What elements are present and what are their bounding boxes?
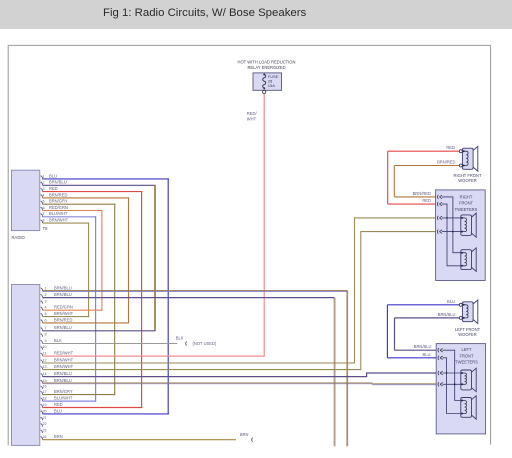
C2 pin 7 label	[45, 325, 72, 330]
svg-text:WHT: WHT	[247, 116, 257, 121]
C2 pin 2 label	[45, 292, 72, 297]
svg-text:BRN/RED: BRN/RED	[413, 191, 431, 196]
label RIGHT FRONT TWEETERS	[455, 194, 478, 212]
LT upper tweeter speaker	[461, 368, 476, 392]
fuse box	[253, 73, 282, 90]
wire C1 pin 6 RED/GRN horizontal	[42, 210, 102, 212]
svg-text:5: 5	[45, 312, 47, 316]
C2 pin 18 hook	[41, 398, 43, 401]
svg-text:15A: 15A	[268, 83, 275, 88]
C2 pin 22 hook	[41, 424, 43, 427]
wire C2 pin 7 BRN/BLU	[42, 330, 155, 332]
svg-text:11: 11	[43, 352, 47, 356]
svg-text:BRN/RED: BRN/RED	[49, 192, 67, 197]
svg-text:6: 6	[45, 318, 47, 322]
svg-text:FRONT: FRONT	[459, 201, 474, 206]
svg-text:17: 17	[42, 390, 46, 394]
C2 pin 15 label	[42, 378, 71, 383]
wire C2 pin 11 RED/WHT	[42, 355, 264, 357]
svg-text:BRN/BLU: BRN/BLU	[414, 344, 432, 349]
wire C1 pin 8 BRN/WHT vertical	[88, 223, 90, 318]
RT entry 1 BRN/RED	[437, 195, 442, 199]
wire BRN/BLU to left front woofer	[395, 318, 460, 350]
svg-text:4: 4	[43, 193, 45, 197]
wire C1 pin 5 BRN/GRY horizontal	[42, 203, 115, 205]
svg-text:8: 8	[45, 332, 47, 336]
svg-text:BRN/WHT: BRN/WHT	[54, 357, 74, 362]
wire C1 pin 7 BLU/WHT vertical	[95, 216, 97, 401]
wire C1 pin 8 BRN/WHT horizontal	[42, 222, 89, 224]
wire C1 pin 5 BRN/GRY vertical	[114, 204, 116, 395]
svg-text:WOOFER: WOOFER	[458, 178, 476, 183]
label LEFT FRONT WOOFER	[455, 327, 481, 337]
svg-text:BRN/RED: BRN/RED	[437, 160, 455, 165]
fuse output connector ring	[263, 90, 266, 93]
LT entry 1 BRN/BLU	[438, 348, 443, 352]
RT upper tweeter speaker	[461, 213, 476, 237]
right front woofer speaker	[459, 146, 478, 171]
svg-text:BRN/GRY: BRN/GRY	[54, 389, 73, 394]
C2 pin 16 hook	[41, 386, 43, 389]
svg-text:BRN/GRY: BRN/GRY	[49, 199, 68, 204]
label RED at woofer	[446, 145, 455, 150]
C1 pin 5 hook	[41, 201, 43, 204]
svg-text:RED: RED	[49, 186, 58, 191]
LT junction node lower	[454, 383, 456, 385]
svg-text:23: 23	[42, 429, 46, 433]
C2 pin 10 label	[42, 345, 46, 349]
svg-text:7: 7	[45, 326, 47, 330]
wire C2 pin 9 BLK	[42, 343, 177, 345]
svg-text:RED: RED	[422, 198, 431, 203]
svg-text:BLU/WHT: BLU/WHT	[49, 211, 68, 216]
C2 pin 12 label	[42, 357, 73, 362]
LT internal wire entry4 to upper tweeter	[443, 383, 462, 385]
label BRN/RED at tweeter box	[413, 191, 431, 196]
wire C1 pin 6 RED/GRN vertical	[101, 210, 103, 311]
C1 pin 2 label BRN/BLU	[43, 180, 67, 185]
svg-text:3: 3	[45, 299, 47, 303]
svg-text:BRN/BLU: BRN/BLU	[54, 371, 72, 376]
RT internal wire entry1 to lower tweeter	[442, 197, 462, 253]
svg-text:BLU: BLU	[447, 299, 455, 304]
svg-text:BLU: BLU	[423, 352, 431, 357]
C1 pin 2 hook	[41, 182, 43, 185]
wire C1 pin 4 BRN/RED horizontal	[42, 197, 129, 199]
RT entry 4 BRN/WHT	[437, 230, 442, 234]
C2 pin 23 label	[42, 429, 46, 433]
C2 pin 12 hook	[41, 360, 43, 363]
svg-text:RED: RED	[446, 145, 455, 150]
LT internal wire entry2 to lower tweeter	[443, 358, 462, 414]
wire C2 pin 5 BRN/WHT	[42, 316, 89, 318]
wire C2 pin 17 BRN/GRY	[42, 394, 115, 396]
svg-text:6: 6	[43, 206, 45, 210]
C2 pin 4 label	[45, 305, 73, 310]
svg-text:BRN/RED: BRN/RED	[54, 317, 72, 322]
wire C2 pin 1 BRN/BLU horizontal	[42, 290, 347, 293]
svg-text:TWEETERS: TWEETERS	[455, 360, 478, 365]
C2 pin 3 label	[45, 299, 47, 303]
C2 pin 17 label	[42, 389, 72, 394]
svg-text:BRN/BLU: BRN/BLU	[54, 285, 72, 290]
svg-text:RED/GRN: RED/GRN	[49, 205, 68, 210]
C2 pin 19 hook	[41, 404, 43, 407]
svg-text:RADIO: RADIO	[12, 235, 26, 240]
wire C1 pin 3 RED horizontal	[42, 191, 142, 193]
C1 pin 7 hook	[41, 214, 43, 217]
fuse labels FUSE 28 15A	[268, 74, 279, 88]
svg-text:3: 3	[43, 187, 45, 191]
label BRN/RED at woofer	[437, 160, 455, 165]
svg-text:BRN/BLU: BRN/BLU	[54, 325, 72, 330]
svg-text:8: 8	[43, 219, 45, 223]
svg-text:14: 14	[42, 372, 46, 376]
C2 pin 21 label	[42, 416, 46, 420]
C2 pin 2 hook	[41, 295, 43, 298]
right front tweeters box	[436, 190, 486, 281]
svg-text:2: 2	[43, 181, 45, 185]
svg-text:BRN/WHT: BRN/WHT	[49, 218, 69, 223]
C2 pin 24 label	[42, 434, 62, 439]
C1 pin 5 label BRN/GRY	[43, 199, 68, 204]
C2 pin 14 label	[42, 371, 71, 376]
C2 pin 6 hook	[41, 320, 43, 323]
C2 pin 24 hook	[41, 437, 43, 440]
C1 pin 6 label RED/GRN	[43, 205, 68, 210]
C1 pin 4 hook	[41, 195, 43, 198]
left front woofer speaker	[459, 300, 478, 324]
C2 pin 21 hook	[41, 417, 43, 420]
C2 pin 23 hook	[41, 430, 43, 433]
RT junction node upper	[446, 217, 448, 219]
label RIGHT FRONT WOOFER	[454, 173, 482, 183]
svg-text:24: 24	[42, 435, 46, 439]
svg-text:7: 7	[43, 212, 45, 216]
C2 pin 4 hook	[41, 307, 43, 310]
C1 pin 3 label RED	[43, 186, 58, 191]
svg-text:BRN: BRN	[54, 434, 63, 439]
svg-text:12: 12	[42, 358, 46, 362]
svg-text:5: 5	[43, 200, 45, 204]
C2 pin 9 hook	[41, 340, 43, 343]
RT lower tweeter speaker	[461, 248, 476, 272]
wire C1 pin 1 BLU vertical	[167, 178, 169, 414]
C1 pin 1 hook	[41, 176, 43, 179]
svg-text:1: 1	[45, 286, 47, 290]
C2 pin 13 label	[42, 364, 73, 369]
C2 pin 11 label	[43, 351, 74, 356]
svg-text:T8: T8	[43, 226, 49, 231]
wire C2 pin 6 BRN/RED	[42, 322, 129, 324]
label T8	[43, 226, 49, 231]
svg-text:TWEETERS: TWEETERS	[455, 207, 478, 212]
RT entry 2 RED	[437, 202, 442, 206]
svg-text:BRN/WHT: BRN/WHT	[54, 311, 74, 316]
wire C1 pin 1 BLU horizontal	[42, 178, 168, 180]
C2 pin 11 hook	[41, 353, 43, 356]
RT internal wire entry2 to lower tweeter	[442, 204, 462, 266]
label HOT WITH LOAD REDUCTION RELAY ENERGIZED	[238, 60, 296, 70]
C2 pin 14 hook	[41, 374, 43, 377]
C2 pin 17 hook	[41, 392, 43, 395]
wire C2 pin 1 BRN/BLU vertical	[346, 291, 349, 447]
C2 pin 24 end hook	[252, 438, 253, 442]
wire C2 pin 12 BRN/WHT run	[42, 217, 436, 363]
wire BLU to left front woofer	[387, 305, 459, 358]
svg-text:RIGHT: RIGHT	[460, 194, 473, 199]
wire C2 pin 14 BRN/BLU run	[42, 373, 436, 377]
svg-text:1: 1	[43, 174, 45, 178]
label RED/WHT on fuse wire	[247, 111, 258, 121]
C2 pin 7 hook	[41, 328, 43, 331]
LT entry 2 BLU	[438, 356, 443, 360]
wire C2 pin 19 RED	[42, 407, 142, 409]
label (NOT USED)	[193, 341, 217, 346]
radio connector T8 box	[12, 170, 40, 230]
svg-text:BLK: BLK	[176, 336, 184, 341]
wire C2 pin 2 BRN/BLU horizontal	[42, 297, 334, 299]
wire RED to right front woofer	[388, 151, 460, 204]
RT entry 3 BRN/WHT	[437, 216, 442, 220]
C2 pin 5 label	[45, 311, 74, 316]
svg-text:BLU: BLU	[54, 408, 62, 413]
svg-text:BLU: BLU	[49, 173, 57, 178]
wire C2 pin 2 BRN/BLU vertical	[333, 298, 336, 447]
wire C1 pin 4 BRN/RED vertical	[128, 197, 130, 323]
svg-text:4: 4	[45, 306, 47, 310]
C2 pin 5 hook	[41, 314, 43, 317]
title bar	[0, 0, 512, 29]
svg-text:20: 20	[42, 409, 46, 413]
C2 pin 18 label	[42, 396, 72, 401]
svg-text:RED/GRN: RED/GRN	[54, 305, 73, 310]
C2 pin 13 hook	[41, 367, 43, 370]
svg-text:RED: RED	[54, 402, 63, 407]
C1 pin 8 label BRN/WHT	[43, 218, 69, 223]
label BLU at tweeter box	[423, 352, 431, 357]
svg-text:10: 10	[42, 345, 46, 349]
svg-text:BRN/BLU: BRN/BLU	[49, 180, 67, 185]
LT junction node upper	[446, 372, 448, 374]
svg-text:BRN/BLU: BRN/BLU	[54, 378, 72, 383]
C2 pin 20 label	[42, 408, 62, 413]
svg-text:RED/WHT: RED/WHT	[54, 351, 74, 356]
svg-text:BRN/WHT: BRN/WHT	[54, 364, 74, 369]
svg-text:15: 15	[42, 379, 46, 383]
wire C2 pin 18 BLU/WHT	[42, 400, 96, 402]
svg-text:18: 18	[42, 397, 46, 401]
C1 pin 6 hook	[41, 207, 43, 210]
C2 pin 22 label	[42, 422, 46, 426]
C2 pin 19 label	[42, 402, 62, 407]
label BLK at wire end	[176, 336, 184, 341]
svg-text:16: 16	[42, 385, 46, 389]
svg-text:FRONT: FRONT	[459, 353, 474, 358]
svg-text:22: 22	[42, 422, 46, 426]
C2 pin 1 label	[45, 285, 72, 290]
svg-text:RED/: RED/	[247, 111, 258, 116]
label BLU at woofer	[447, 299, 455, 304]
svg-text:(NOT USED): (NOT USED)	[193, 341, 217, 346]
svg-text:19: 19	[42, 403, 46, 407]
svg-text:9: 9	[45, 339, 47, 343]
wire C2 pin 15 BRN/BLU run	[42, 383, 436, 385]
wire RED/WHT fuse to C2 pin 11 (vertical)	[263, 94, 265, 356]
C2 pin 1 hook	[41, 288, 43, 291]
C2 pin 8 label	[45, 332, 47, 336]
wire C1 pin 2 BRN/BLU horizontal	[42, 184, 155, 186]
LT internal wire entry1 to lower tweeter	[443, 350, 462, 400]
RT internal wire entry4 to upper tweeter	[442, 231, 462, 233]
RT internal wire entry3 to upper tweeter	[442, 217, 462, 219]
LT lower tweeter speaker	[461, 396, 476, 419]
C1 pin 4 label BRN/RED	[43, 192, 68, 197]
label LEFT FRONT TWEETERS	[455, 347, 478, 365]
C1 pin 7 label BLU/WHT	[43, 211, 68, 216]
wire C2 pin 24 BRN	[42, 439, 236, 441]
wire C2 pin 4 RED/GRN	[42, 309, 102, 311]
C2 pin 6 label	[45, 317, 73, 322]
LT entry 4 BRN/BLU	[438, 382, 443, 386]
C2 pin 8 hook	[41, 334, 43, 337]
wire C1 pin 7 BLU/WHT horizontal	[42, 216, 96, 218]
svg-text:21: 21	[42, 416, 46, 420]
wire C1 pin 3 RED vertical	[141, 191, 143, 408]
svg-text:BLK: BLK	[54, 338, 62, 343]
left front tweeters box	[436, 344, 485, 434]
svg-text:WOOFER: WOOFER	[458, 332, 476, 337]
label BRN/BLU at woofer	[438, 312, 456, 317]
C2 pin 9 end hook	[185, 342, 188, 346]
C1 pin 8 hook	[41, 220, 43, 223]
C2 pin 9 label	[45, 338, 62, 343]
label BRN at wire end	[240, 432, 249, 437]
svg-text:BRN: BRN	[240, 432, 249, 437]
wire C2 pin 20 BLU	[42, 413, 168, 415]
label RED at tweeter box	[422, 198, 431, 203]
svg-text:BRN/BLU: BRN/BLU	[54, 292, 72, 297]
LT internal wire entry3 to upper tweeter	[443, 372, 462, 374]
C2 pin 16 label	[42, 385, 46, 389]
svg-text:2: 2	[45, 293, 47, 297]
amp connector box	[12, 285, 40, 446]
svg-text:LEFT: LEFT	[461, 347, 472, 352]
C2 pin 15 hook	[41, 380, 43, 383]
svg-text:BRN/BLU: BRN/BLU	[438, 312, 456, 317]
label BRN/BLU at tweeter box	[414, 344, 432, 349]
svg-text:BLU/WHT: BLU/WHT	[54, 396, 73, 401]
C1 pin 3 hook	[41, 189, 43, 192]
C1 pin 1 label BLU	[43, 173, 57, 178]
wire BRN/RED to right front woofer	[394, 166, 459, 197]
svg-text:RELAY ENERGIZED: RELAY ENERGIZED	[247, 65, 285, 70]
wire C2 pin 13 BRN/WHT run	[42, 231, 436, 370]
RT junction node lower	[452, 231, 454, 233]
wire C1 pin 2 BRN/BLU vertical	[154, 185, 157, 330]
label RADIO	[12, 235, 26, 240]
C2 pin 10 hook	[41, 347, 43, 350]
LT entry 3 BRN/BLU	[438, 371, 443, 375]
svg-text:13: 13	[42, 365, 46, 369]
C2 pin 20 hook	[41, 411, 43, 414]
fuse F28 15A symbol	[263, 73, 266, 89]
C2 pin 3 hook	[41, 301, 43, 304]
